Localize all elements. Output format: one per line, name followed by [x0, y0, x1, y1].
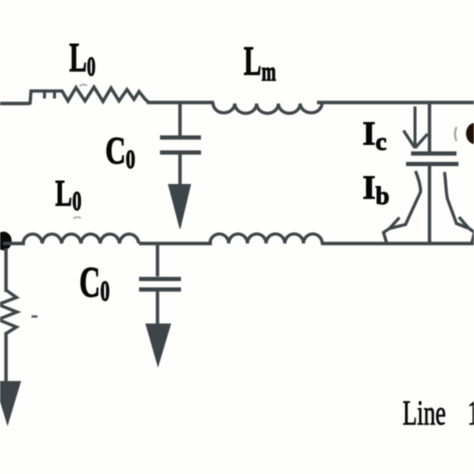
node A (black junction dot): [0, 232, 12, 251]
noise tilde under L0 bottom: [74, 217, 82, 218]
wire top-left stub: [0, 102, 30, 105]
Ib right curve: [445, 172, 474, 244]
wire bottom middle: [139, 242, 212, 245]
wire resistor down: [4, 332, 7, 383]
svg-text:Lm: Lm: [244, 39, 276, 87]
inductor L0 bottom: [23, 234, 139, 243]
noise dash near resistor: [32, 315, 38, 317]
inductor Lm: [213, 103, 322, 114]
svg-text:Ib: Ib: [363, 170, 390, 211]
transistor capacitor plate top: [411, 151, 457, 155]
transistor emitter lead: [428, 166, 431, 244]
capacitor C0 top: lead: [178, 103, 181, 136]
capacitor C0 top: lower lead: [178, 154, 181, 187]
wire node down: [4, 248, 7, 292]
inductor L0 top: [30, 87, 149, 105]
capacitor C0 bottom: plates: [139, 277, 181, 281]
capacitor C0 top: plates: [160, 135, 201, 139]
label Ic: [363, 116, 387, 157]
transistor capacitor plate bottom: [406, 162, 459, 166]
inductor bottom right: [210, 234, 322, 244]
label C0 top: [105, 130, 135, 173]
capacitor C0 bottom: lead: [156, 245, 159, 277]
svg-text:Ic: Ic: [363, 116, 387, 157]
label L0 top: [69, 35, 95, 81]
svg-text:L0: L0: [69, 35, 95, 81]
svg-text:1: 1: [468, 394, 474, 433]
ground arrow left: [0, 382, 21, 425]
label Ib: [363, 170, 390, 211]
noise tilde under L0 top: [80, 85, 88, 86]
resistor left: [0, 290, 17, 334]
wire bottom right: [321, 242, 474, 245]
ground arrow below C0 bottom: [146, 324, 171, 366]
wire node to coil: [3, 242, 25, 245]
wire top right: [317, 101, 474, 104]
ground arrow below C0 top: [169, 185, 191, 229]
label C0 bottom: [79, 258, 110, 308]
svg-text:L0: L0: [55, 173, 81, 217]
capacitor C0 bottom: lower lead: [156, 291, 159, 325]
partial parenthesis mark: [455, 127, 457, 141]
partial letter C right edge: [466, 123, 474, 144]
label Lm: [244, 39, 276, 87]
partial digit 1 right edge: [468, 394, 474, 433]
svg-text:C0: C0: [105, 130, 135, 173]
current arrow Ic: [404, 107, 428, 149]
svg-text:Line: Line: [403, 394, 446, 433]
label L0 bottom: [55, 173, 81, 217]
text Line1: [403, 394, 446, 433]
wire top middle: [147, 101, 214, 104]
transistor branch: collector lead: [428, 103, 431, 152]
svg-text:C0: C0: [79, 258, 110, 308]
Ib left curve: [384, 171, 421, 244]
